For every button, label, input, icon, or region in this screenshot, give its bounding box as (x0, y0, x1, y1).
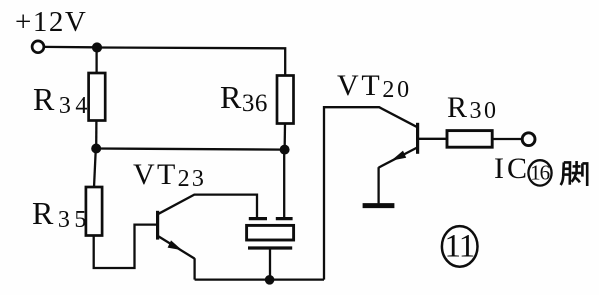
terminal +12V input circle (32, 41, 44, 53)
wire VT20 to R30 (419, 138, 447, 140)
wire bottom rail (195, 278, 324, 280)
resistor R34 (89, 73, 106, 121)
label +12V (15, 6, 87, 39)
terminal IC pin 16 circle (522, 133, 535, 146)
transistor VT23 emitter with arrow (159, 236, 195, 279)
node C junction dot (280, 145, 290, 155)
circled figure number 11 (442, 226, 478, 267)
label R34 (33, 81, 92, 118)
wire R36 bottom to node C (284, 124, 287, 146)
wire terminal to node A (45, 46, 93, 49)
wire node C down to filter right plate (283, 150, 285, 218)
ground (363, 203, 395, 208)
label VT23 (133, 158, 206, 192)
wire node B down to R35 (94, 149, 96, 188)
wire mid rail node B to node C (96, 149, 284, 150)
transistor VT23 base bar (156, 211, 159, 240)
label R35 (32, 195, 91, 232)
label 11 in circle (445, 228, 475, 265)
ceramic filter bottom plate (248, 246, 292, 249)
ceramic filter left top plate (249, 217, 267, 220)
resistor R30 (447, 131, 492, 148)
wire R35 bottom to VT23 base (94, 225, 157, 268)
wire R34 bottom to node B (95, 121, 98, 149)
resistor R35 (86, 187, 102, 236)
wire top rail node A to R36 top corner (97, 48, 285, 76)
transistor VT20 base bar (416, 123, 419, 154)
node B junction dot (91, 144, 101, 154)
wire node A down to R34 (95, 48, 97, 74)
wire filter bottom to node D (269, 248, 271, 280)
circled pin number 16 (528, 160, 551, 185)
label IC (494, 152, 530, 186)
ceramic filter body (247, 225, 294, 240)
transistor VT20 emitter with arrow (379, 148, 417, 204)
label VT20 (337, 69, 412, 103)
transistor VT23 collector wire to filter left plate (159, 195, 258, 218)
ceramic filter right top plate (276, 217, 293, 220)
label 16 in circle (530, 161, 549, 186)
label R36 (220, 79, 268, 116)
node D junction dot (265, 275, 275, 285)
wire R30 to output terminal (492, 138, 521, 140)
label R30 (447, 91, 499, 125)
character jiao (pin) (561, 161, 588, 186)
wire riser to VT20 (324, 107, 417, 279)
resistor R36 (277, 76, 294, 124)
node A junction dot (92, 42, 102, 52)
